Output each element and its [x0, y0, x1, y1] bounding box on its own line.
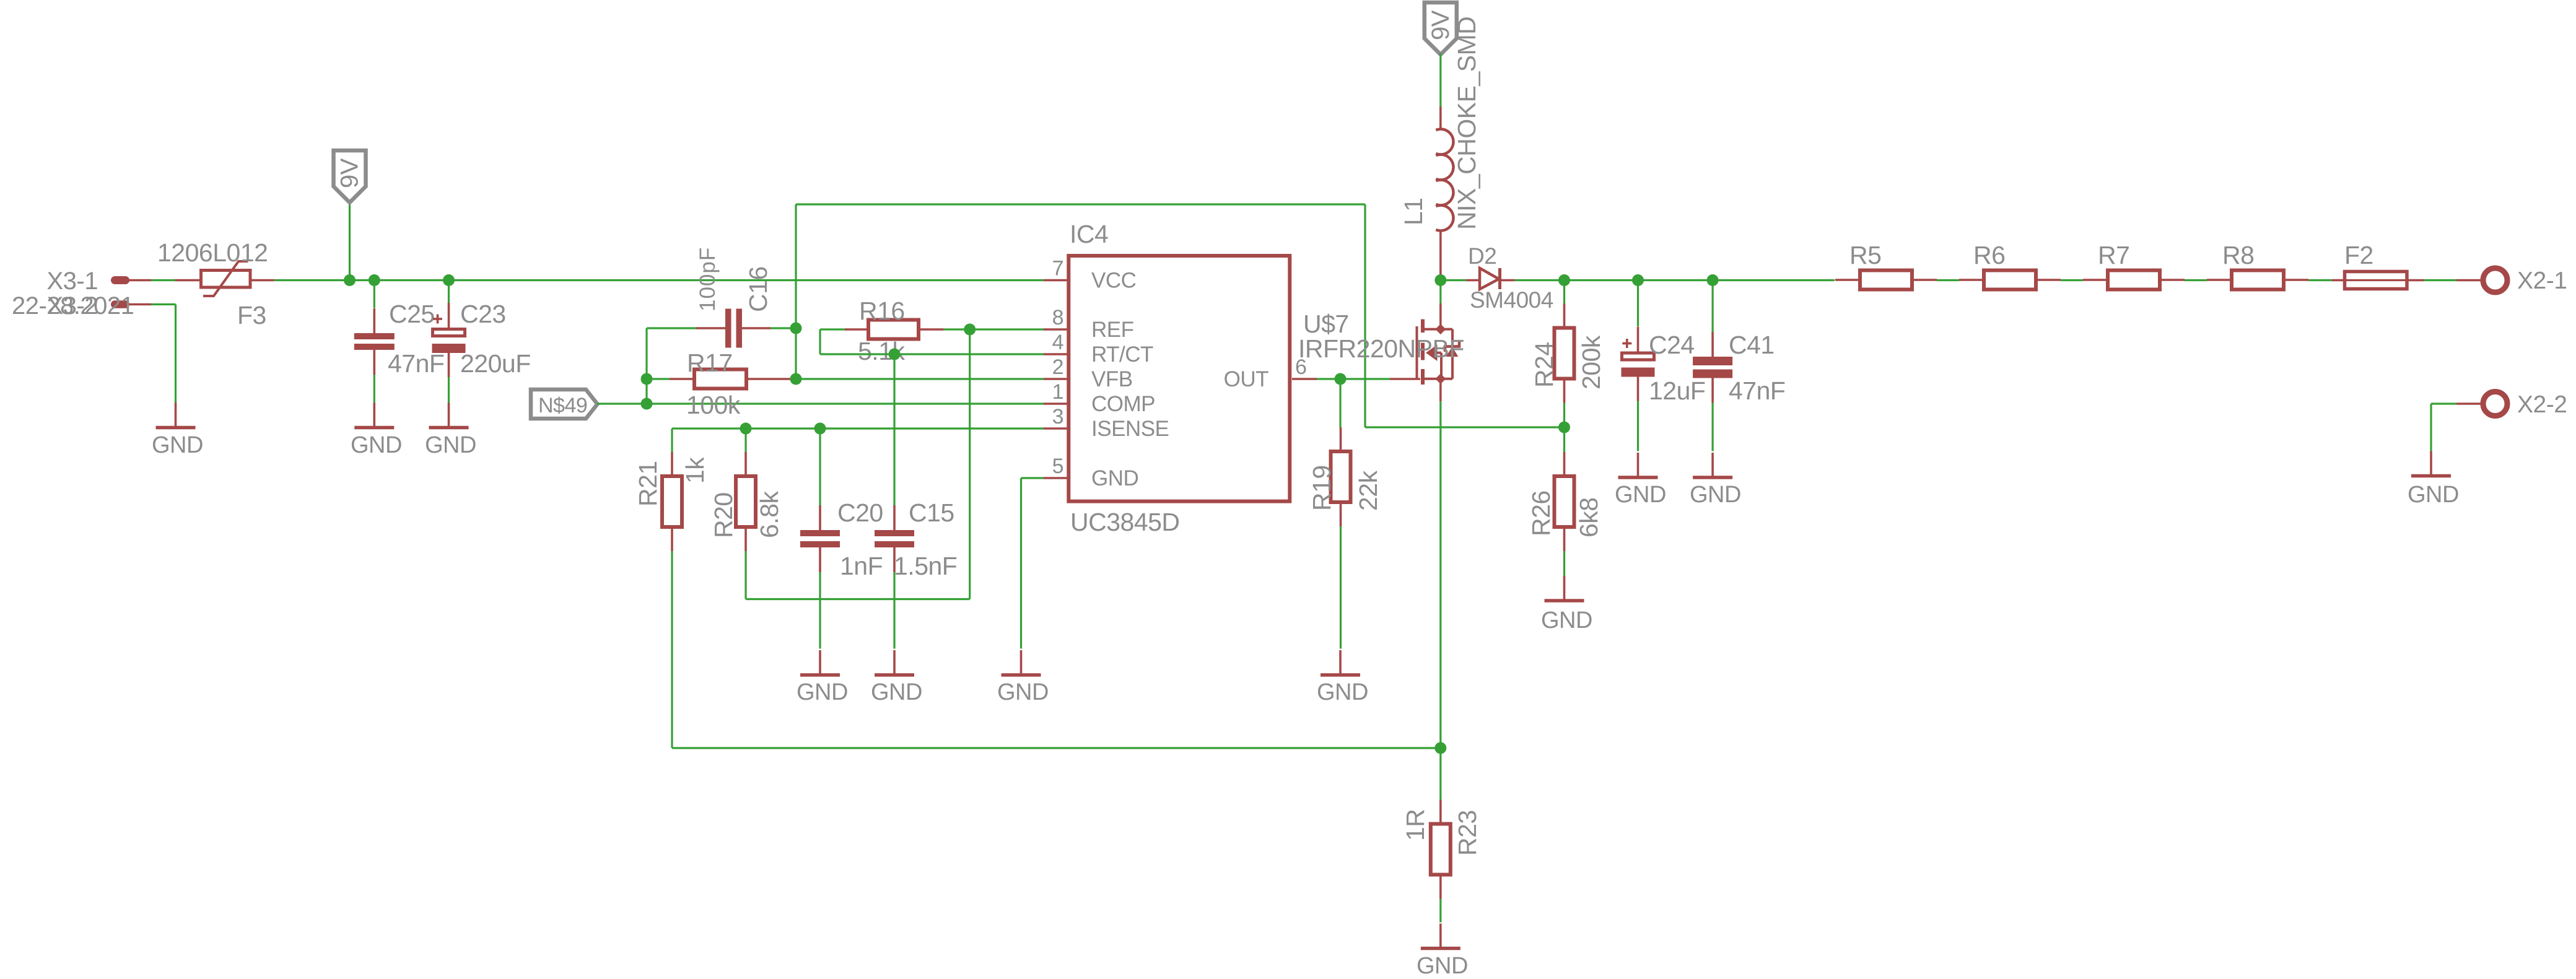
connector pad X2-2 [2456, 392, 2507, 416]
wire [969, 329, 971, 599]
wire [795, 378, 1044, 380]
svg-text:R8: R8 [2222, 241, 2254, 269]
wire [744, 551, 746, 599]
transistor U$7 IRFR220NPBF [1390, 303, 1459, 401]
svg-text:GND: GND [1541, 607, 1592, 633]
wire [820, 353, 1044, 355]
junction [641, 398, 653, 410]
wire [744, 429, 746, 452]
svg-text:R19: R19 [1308, 465, 1336, 511]
svg-text:8: 8 [1052, 306, 1063, 329]
wire [2308, 279, 2332, 281]
ground (R19) [1321, 650, 1360, 675]
resistor R17 [670, 370, 795, 389]
svg-text:VFB: VFB [1091, 367, 1133, 391]
net label N$49 [531, 389, 598, 419]
ground (C24) [1618, 453, 1658, 477]
supply 9V stem wire [349, 202, 351, 281]
resistor R23 [1431, 800, 1451, 899]
svg-text:GND: GND [1690, 482, 1741, 508]
svg-text:X3-2: X3-2 [47, 292, 98, 320]
capacitor C16 [696, 309, 771, 348]
wire [1439, 281, 1441, 304]
svg-text:R7: R7 [2098, 241, 2129, 269]
svg-text:D2: D2 [1468, 243, 1496, 269]
wire [1439, 899, 1441, 923]
svg-text:IC4: IC4 [1070, 220, 1108, 248]
svg-text:C41: C41 [1729, 331, 1775, 359]
pin 6 OUT [1292, 378, 1317, 380]
svg-text:R26: R26 [1527, 490, 1555, 536]
wire [647, 327, 696, 329]
svg-text:UC3845D: UC3845D [1070, 508, 1180, 536]
pin 2 VFB [1044, 378, 1068, 380]
resistor R21 [662, 452, 682, 551]
resistor R16 [845, 320, 944, 339]
wire [672, 427, 1044, 429]
resistor R20 [736, 452, 756, 551]
svg-text:47nF: 47nF [388, 349, 444, 378]
diode D2 SM4004 [1466, 268, 1515, 289]
svg-text:GND: GND [1317, 679, 1368, 705]
wire [893, 572, 895, 649]
junction [889, 349, 901, 360]
supply symbol 9V (input) [334, 150, 366, 202]
wire [597, 402, 1044, 404]
svg-text:220uF: 220uF [460, 349, 531, 378]
wire [1515, 279, 1835, 281]
wire [671, 551, 673, 748]
wire [151, 279, 175, 281]
svg-text:F2: F2 [2344, 241, 2373, 269]
junction [1335, 373, 1347, 385]
junction [790, 373, 802, 385]
ground (R23) [1421, 924, 1460, 949]
connector pin X3-1 [111, 276, 151, 284]
junction [964, 324, 976, 336]
wire [448, 377, 450, 403]
junction [369, 274, 380, 286]
wire [820, 328, 845, 330]
svg-text:1k: 1k [681, 457, 709, 484]
svg-text:X3-1: X3-1 [47, 268, 98, 295]
svg-text:5: 5 [1052, 455, 1063, 478]
junction [790, 323, 802, 334]
svg-text:C16: C16 [744, 266, 772, 312]
pin 5 GND [1044, 477, 1068, 479]
svg-text:GND: GND [797, 679, 848, 705]
capacitor C41 [1693, 332, 1732, 403]
svg-text:2: 2 [1052, 355, 1063, 379]
wire [796, 203, 1365, 205]
resistor R6 [1959, 271, 2061, 290]
junction [1434, 742, 1446, 754]
svg-text:VCC: VCC [1091, 269, 1136, 293]
svg-text:F3: F3 [237, 301, 266, 329]
svg-text:N$49: N$49 [538, 394, 587, 417]
svg-text:GND: GND [425, 432, 476, 458]
ground (C23) [429, 403, 469, 428]
wire [746, 598, 970, 600]
wire [1020, 478, 1022, 649]
svg-text:3: 3 [1052, 405, 1063, 429]
pin 8 REF [1044, 328, 1068, 331]
resistor R26 [1555, 452, 1574, 551]
ground (C20) [800, 650, 840, 675]
ground (C41) [1693, 453, 1732, 477]
pin 4 RT/CT [1044, 353, 1068, 355]
svg-text:GND: GND [2408, 482, 2459, 508]
svg-text:GND: GND [1091, 466, 1138, 490]
ground (X2-2) [2411, 451, 2451, 476]
svg-text:GND: GND [351, 432, 402, 458]
ground (IC4 pin5) [1002, 650, 1041, 675]
svg-text:ISENSE: ISENSE [1091, 417, 1169, 441]
wire [1563, 427, 1565, 452]
wire [771, 327, 796, 329]
inductor L1 [1436, 107, 1453, 281]
junction [814, 423, 826, 435]
svg-text:L1: L1 [1399, 198, 1428, 225]
svg-text:6.8k: 6.8k [755, 491, 784, 538]
svg-text:GND: GND [1615, 482, 1666, 508]
svg-text:R21: R21 [634, 461, 662, 507]
svg-text:7: 7 [1052, 257, 1063, 281]
wire [151, 303, 176, 305]
junction [1632, 274, 1644, 286]
wire [1439, 53, 1441, 107]
svg-text:200k: 200k [1577, 335, 1605, 389]
svg-text:9V: 9V [336, 158, 364, 188]
supply symbol 9V (boost) [1425, 2, 1457, 54]
wire [1637, 401, 1639, 451]
svg-text:C15: C15 [909, 498, 954, 527]
svg-text:GND: GND [1417, 953, 1468, 979]
ground (C25) [354, 403, 394, 428]
wire [1364, 204, 1366, 427]
wire [1563, 281, 1565, 304]
svg-text:1nF: 1nF [840, 552, 883, 580]
svg-text:12uF: 12uF [1649, 376, 1705, 405]
wire [175, 305, 177, 404]
pin 7 VCC [1044, 279, 1068, 282]
connector pin X3-2 [111, 300, 151, 308]
resistor R24 [1555, 304, 1574, 403]
IC U1 body (IC4 UC3845D) [1068, 256, 1290, 502]
wire [1441, 279, 1466, 281]
capacitor C20 [800, 505, 840, 572]
wire [373, 375, 375, 403]
svg-text:100k: 100k [686, 391, 741, 419]
svg-text:R16: R16 [859, 297, 905, 325]
wire [819, 429, 821, 507]
wire [2185, 279, 2207, 281]
junction [443, 274, 455, 286]
svg-text:R5: R5 [1849, 241, 1881, 269]
svg-text:R24: R24 [1530, 342, 1558, 388]
svg-text:R6: R6 [1973, 241, 2005, 269]
ground (C15) [875, 650, 914, 675]
svg-text:R20: R20 [709, 492, 738, 538]
plus mark C23 [433, 315, 442, 324]
wire [672, 747, 1441, 749]
wire [1021, 477, 1044, 479]
wire [1439, 401, 1441, 748]
svg-text:C25: C25 [389, 300, 435, 328]
svg-text:6k8: 6k8 [1574, 497, 1603, 537]
pin 1 COMP [1044, 402, 1068, 405]
wire [671, 429, 673, 452]
wire [1637, 281, 1639, 327]
ground (X3-2) [156, 403, 196, 428]
svg-text:RT/CT: RT/CT [1091, 342, 1153, 367]
wire [2424, 279, 2456, 281]
wire [1712, 403, 1714, 451]
wire [1339, 379, 1341, 427]
resistor R8 [2207, 271, 2308, 290]
wire [819, 329, 821, 354]
svg-text:GND: GND [997, 679, 1049, 705]
connector pad X2-1 [2456, 268, 2507, 292]
junction [740, 423, 752, 435]
fuse F2 [2332, 272, 2424, 289]
junction [1707, 274, 1719, 286]
wire [2061, 279, 2083, 281]
capacitor C15 [875, 505, 914, 572]
svg-text:X2-2: X2-2 [2517, 391, 2567, 418]
svg-text:47nF: 47nF [1729, 376, 1785, 405]
resistor R7 [2083, 271, 2185, 290]
wire [1439, 748, 1441, 800]
fuse F3 [175, 261, 274, 296]
wire [2430, 404, 2432, 451]
wire [893, 354, 895, 507]
junction [344, 274, 356, 286]
svg-text:COMP: COMP [1091, 392, 1155, 416]
wire [1563, 551, 1565, 577]
svg-text:4: 4 [1052, 331, 1063, 354]
junction [641, 373, 653, 385]
svg-text:NIX_CHOKE_SMD: NIX_CHOKE_SMD [1452, 17, 1481, 230]
svg-text:100pF: 100pF [696, 247, 720, 311]
svg-text:OUT: OUT [1224, 367, 1269, 391]
svg-text:1.5nF: 1.5nF [894, 552, 957, 580]
svg-text:1R: 1R [1401, 809, 1430, 841]
svg-text:REF: REF [1091, 318, 1134, 342]
svg-text:C24: C24 [1649, 331, 1695, 359]
svg-text:R17: R17 [687, 349, 733, 377]
svg-text:SM4004: SM4004 [1470, 287, 1553, 313]
wire [1712, 281, 1714, 333]
svg-text:GND: GND [152, 432, 203, 458]
wire [1340, 526, 1342, 649]
wire [448, 281, 450, 303]
svg-text:GND: GND [871, 679, 922, 705]
svg-text:IRFR220NPBF: IRFR220NPBF [1298, 334, 1464, 363]
wire [2431, 402, 2456, 404]
wire [1937, 279, 1959, 281]
junction [1558, 274, 1570, 286]
wire [274, 279, 1044, 281]
pin 3 ISENSE [1044, 427, 1068, 430]
svg-text:R23: R23 [1453, 810, 1482, 856]
resistor R5 [1835, 271, 1937, 290]
svg-text:C20: C20 [837, 498, 883, 527]
svg-text:1206L012: 1206L012 [157, 238, 268, 267]
wire [1365, 426, 1565, 428]
wire [795, 204, 797, 379]
capacitor C24 [1622, 327, 1655, 401]
svg-text:C23: C23 [460, 300, 506, 328]
svg-text:22k: 22k [1354, 470, 1382, 511]
wire [1563, 403, 1565, 428]
svg-text:1: 1 [1052, 380, 1063, 404]
wire [645, 328, 647, 404]
wire [1317, 378, 1390, 380]
ground (R26) [1545, 576, 1584, 601]
svg-text:9V: 9V [1427, 10, 1454, 40]
resistor R19 [1331, 427, 1351, 526]
junction [1558, 422, 1570, 433]
svg-text:X2-1: X2-1 [2517, 268, 2567, 294]
junction [1434, 274, 1446, 286]
capacitor C23 [432, 303, 466, 377]
capacitor C25 [354, 308, 395, 375]
wire [819, 572, 821, 649]
wire [944, 328, 1044, 330]
plus mark C24 [1622, 339, 1631, 348]
wire [373, 281, 375, 308]
wire [647, 378, 670, 380]
